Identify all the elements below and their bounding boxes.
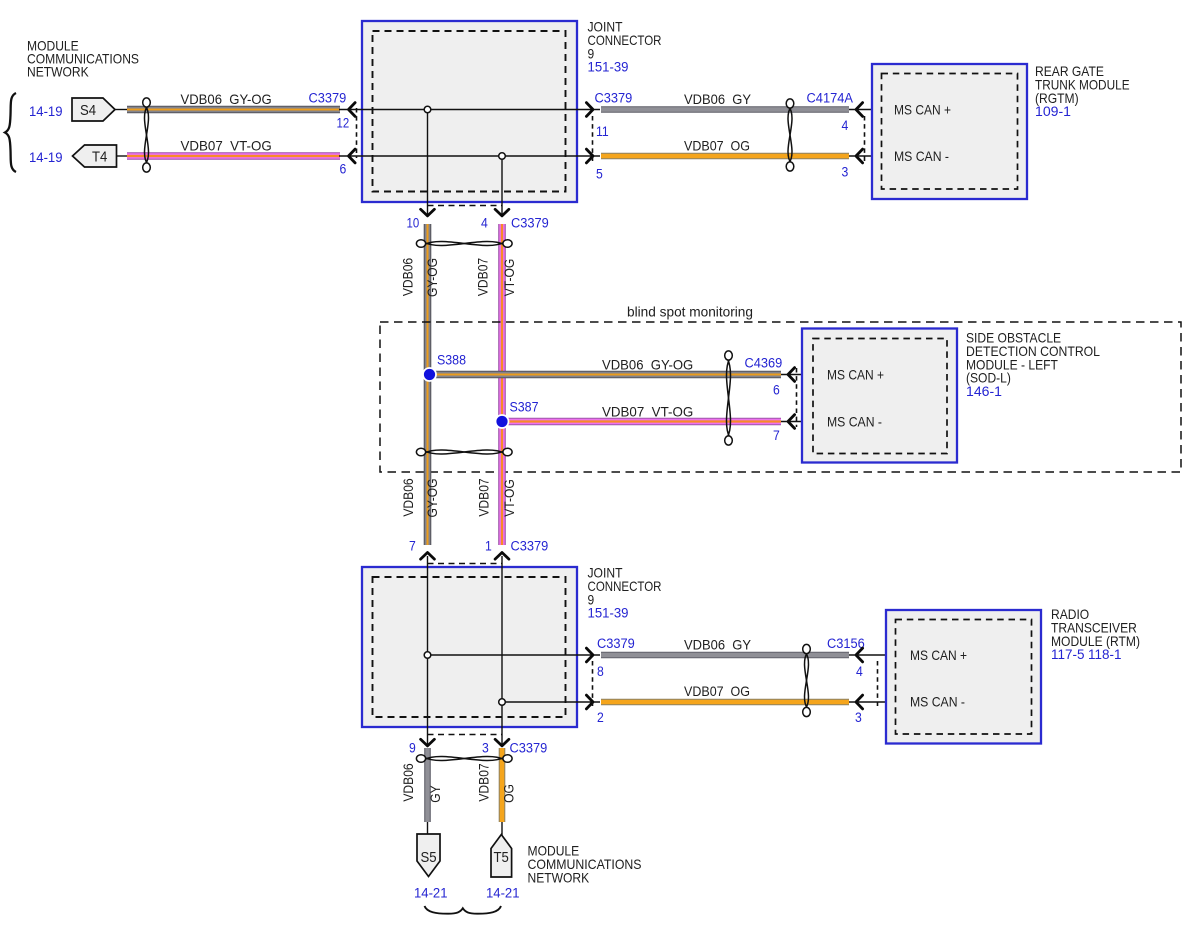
wire VDB06 GY-OG (C3379-10 down to S388) [424, 224, 432, 378]
wire VDB06 GY (C3379-8 to RTM) [601, 652, 849, 659]
svg-text:12: 12 [337, 116, 350, 131]
svg-text:VDB06 GY: VDB06 GY [684, 92, 751, 107]
svg-text:VDB07 OG: VDB07 OG [684, 139, 750, 154]
arrow into RGTM MS CAN - [856, 149, 863, 163]
twisted pair (SOD-L branch) [725, 351, 733, 445]
module RGTM box [872, 64, 1027, 199]
svg-text:S4: S4 [80, 102, 96, 119]
svg-text:C4369: C4369 [745, 355, 783, 371]
arrow out pin 5 [586, 149, 593, 163]
wire link into RGTM pin 4 [849, 109, 891, 111]
wire VDB06 GY-OG (S4 to C3379-12) [127, 106, 340, 114]
connector C3379 boundary dashes (below top box) [428, 205, 503, 207]
arrow into RTM MS CAN - [856, 695, 863, 709]
svg-text:VT-OG: VT-OG [502, 479, 517, 517]
wire VDB07 VT-OG (C3379-4 down to S387) [498, 224, 506, 425]
arrow into RTM MS CAN + [856, 648, 863, 662]
junction (pin 1 trunk / pin 2 bus) [499, 699, 506, 706]
node label MODULE COMMUNICATIONS NETWORK (bottom) [528, 844, 642, 886]
twisted pair (top-left) [143, 98, 151, 172]
junction (bus upper / pin 10) [424, 106, 431, 113]
svg-text:GY-OG: GY-OG [425, 478, 440, 517]
svg-text:14-19: 14-19 [29, 150, 63, 166]
wire link into RTM pin 3 [849, 701, 906, 703]
wire link into RTM pin 4 [849, 654, 906, 656]
off-page connector S5 [417, 834, 440, 877]
svg-text:MS CAN +: MS CAN + [910, 648, 967, 663]
arrow out pin 10 [421, 209, 435, 216]
node label MODULE COMMUNICATIONS NETWORK (top-left) [27, 39, 139, 80]
joint connector (bottom) label [588, 566, 662, 621]
wire link to T5 [501, 822, 503, 835]
arrow out pin 2 [586, 695, 593, 709]
internal wire pin 7 to pin 9 [427, 556, 429, 744]
wire link into SOD-L pin 7 [781, 421, 826, 423]
svg-text:CONNECTOR: CONNECTOR [588, 579, 662, 594]
svg-text:118-1: 118-1 [1088, 647, 1122, 662]
svg-text:4: 4 [856, 664, 863, 679]
svg-text:VDB07: VDB07 [477, 763, 492, 801]
module RTM label [1051, 607, 1140, 662]
off-page brace bottom [425, 906, 502, 914]
twisted pair (RGTM branch) [786, 99, 794, 171]
wire link T4 [117, 155, 130, 157]
svg-text:10: 10 [407, 216, 420, 231]
svg-text:14-21: 14-21 [486, 886, 520, 902]
svg-text:S387: S387 [510, 400, 539, 416]
svg-text:CONNECTOR: CONNECTOR [588, 33, 662, 48]
twisted pair (lower trunk) [416, 448, 512, 456]
wire VDB06 GY (C3379-11 to RGTM) [601, 106, 849, 113]
module RGTM label [1035, 64, 1130, 119]
svg-text:7: 7 [409, 539, 416, 554]
svg-text:MS CAN +: MS CAN + [894, 103, 951, 118]
svg-text:T4: T4 [92, 149, 107, 166]
svg-text:C3379: C3379 [511, 216, 549, 232]
bus wire to pin 8 [428, 654, 601, 656]
svg-text:117-5: 117-5 [1051, 647, 1085, 662]
svg-text:VDB07 VT-OG: VDB07 VT-OG [181, 139, 272, 154]
svg-text:GY-OG: GY-OG [425, 258, 440, 297]
connector C4174A boundary dashes [864, 116, 866, 162]
joint connector (bottom) box [362, 567, 577, 727]
wire VDB07 VT-OG (S387 to SOD-L) [502, 418, 781, 426]
svg-text:11: 11 [596, 124, 609, 139]
internal wire pin 1 to pin 3 [501, 556, 503, 744]
svg-text:C3379: C3379 [309, 90, 347, 106]
svg-text:14-19: 14-19 [29, 104, 63, 120]
internal wire to pin 4 [501, 156, 503, 216]
svg-text:C3379: C3379 [595, 90, 633, 106]
connector C3379 boundary dashes (left) [356, 108, 358, 158]
svg-text:VDB07 VT-OG: VDB07 VT-OG [602, 405, 693, 420]
arrow out pin 9 [421, 739, 435, 746]
twisted pair (upper trunk) [416, 240, 512, 248]
connector C3379 boundary dashes (below bottom box) [428, 734, 503, 736]
bus wire (upper) inside joint connector [339, 109, 600, 111]
svg-text:C4174A: C4174A [807, 90, 854, 106]
svg-text:blind spot monitoring: blind spot monitoring [627, 305, 753, 320]
wire VDB07 OG (C3379-5 to RGTM) [601, 153, 849, 160]
svg-text:C3379: C3379 [597, 636, 635, 652]
svg-text:GY: GY [428, 785, 443, 802]
wire VDB07 VT-OG (S387 down to C3379-1) [498, 418, 506, 545]
splice S387 [495, 400, 539, 429]
splice S388 [422, 353, 466, 382]
wire VDB06 GY (C3379-9 to S5) [424, 748, 431, 822]
bus wire to pin 2 [502, 701, 600, 703]
wire VDB06 GY-OG (S388 down to C3379-7) [424, 371, 432, 545]
arrow out pin 11 [586, 103, 593, 117]
connector C3156 boundary dashes [877, 661, 879, 708]
svg-text:8: 8 [597, 664, 604, 679]
svg-text:4: 4 [481, 216, 488, 231]
svg-text:VDB06 GY: VDB06 GY [684, 638, 751, 653]
svg-text:VDB07 OG: VDB07 OG [684, 684, 750, 699]
svg-text:NETWORK: NETWORK [528, 870, 590, 885]
wire link into RGTM pin 3 [849, 155, 891, 157]
svg-text:VDB06 GY-OG: VDB06 GY-OG [602, 358, 693, 373]
svg-text:5: 5 [596, 167, 603, 182]
svg-text:C3379: C3379 [511, 539, 549, 555]
svg-text:6: 6 [340, 162, 347, 177]
svg-text:C3156: C3156 [827, 636, 865, 652]
svg-text:9: 9 [409, 741, 416, 756]
joint connector (top) box [362, 21, 577, 202]
svg-text:7: 7 [773, 428, 780, 443]
off-page connector S4 [72, 98, 115, 121]
arrow into bottom joint connector pin 1 [495, 553, 509, 560]
arrow out pin 8 [586, 648, 593, 662]
twisted pair (bottom exits) [416, 755, 512, 763]
arrow into joint connector pin 12 [349, 103, 356, 117]
connector C3379 boundary dashes (right of bottom box) [592, 661, 594, 708]
svg-text:3: 3 [842, 165, 849, 180]
svg-text:3: 3 [855, 710, 862, 725]
arrow into RGTM MS CAN + [856, 103, 863, 117]
module SOD-L box [802, 329, 957, 463]
svg-text:3: 3 [482, 741, 489, 756]
connector C3379 boundary dashes (above bottom box) [428, 563, 503, 565]
arrow into SOD-L MS CAN - [788, 415, 795, 429]
off-page connector T5 [491, 835, 512, 878]
svg-text:VDB06: VDB06 [401, 478, 416, 517]
svg-text:C3379: C3379 [510, 741, 548, 757]
wire link into SOD-L pin 6 [781, 374, 826, 376]
svg-text:VDB07: VDB07 [475, 258, 490, 296]
svg-text:6: 6 [773, 383, 780, 398]
wire link S4 [115, 109, 129, 111]
connector C3379 boundary dashes (right of top box) [592, 116, 594, 162]
svg-text:OG: OG [502, 784, 517, 803]
svg-text:1: 1 [485, 539, 492, 554]
off-page brace left [5, 93, 16, 172]
svg-text:MS CAN -: MS CAN - [910, 695, 965, 710]
svg-text:VDB06: VDB06 [400, 258, 415, 297]
module RTM box [886, 610, 1041, 744]
svg-text:4: 4 [842, 118, 849, 133]
svg-text:NETWORK: NETWORK [27, 65, 89, 80]
svg-text:MS CAN -: MS CAN - [894, 149, 949, 164]
junction (pin 7 trunk / pin 8 bus) [424, 652, 431, 659]
wire VDB07 OG (C3379-2 to RTM) [601, 699, 849, 706]
wire VDB07 OG (C3379-3 to T5) [499, 748, 506, 822]
svg-text:14-21: 14-21 [414, 886, 448, 902]
svg-text:MS CAN +: MS CAN + [827, 368, 884, 383]
svg-text:T5: T5 [494, 849, 509, 866]
svg-text:MS CAN -: MS CAN - [827, 415, 882, 430]
svg-text:2: 2 [597, 710, 604, 725]
arrow out pin 3 [495, 739, 509, 746]
blind spot monitoring dashed group box [380, 322, 1181, 472]
wire VDB07 VT-OG (T4 to C3379-6) [127, 152, 340, 160]
svg-text:S388: S388 [437, 353, 466, 369]
svg-text:151-39: 151-39 [588, 606, 629, 621]
junction (bus lower / pin 4) [499, 153, 506, 160]
arrow into bottom joint connector pin 7 [421, 553, 435, 560]
bus wire (lower) inside joint connector [339, 155, 600, 157]
connector C4369 boundary dashes [796, 368, 798, 427]
arrow out pin 4 [495, 209, 509, 216]
svg-text:S5: S5 [421, 849, 437, 866]
svg-text:109-1: 109-1 [1035, 104, 1071, 119]
svg-text:VDB06 GY-OG: VDB06 GY-OG [181, 92, 272, 107]
module SOD-L label [966, 331, 1100, 400]
svg-text:VDB07: VDB07 [477, 478, 492, 516]
arrow into SOD-L MS CAN + [788, 368, 795, 382]
twisted pair (RTM branch) [803, 644, 811, 716]
arrow into joint connector pin 6 [349, 149, 356, 163]
internal wire to pin 10 [427, 110, 429, 217]
joint connector (top) label [588, 20, 662, 75]
off-page connector T4 [73, 145, 117, 167]
svg-text:VT-OG: VT-OG [502, 259, 517, 297]
wire link to S5 [427, 822, 429, 834]
wire VDB06 GY-OG (S388 to SOD-L) [430, 371, 782, 379]
svg-text:146-1: 146-1 [966, 384, 1002, 399]
svg-text:151-39: 151-39 [588, 60, 629, 75]
svg-text:VDB06: VDB06 [401, 763, 416, 802]
